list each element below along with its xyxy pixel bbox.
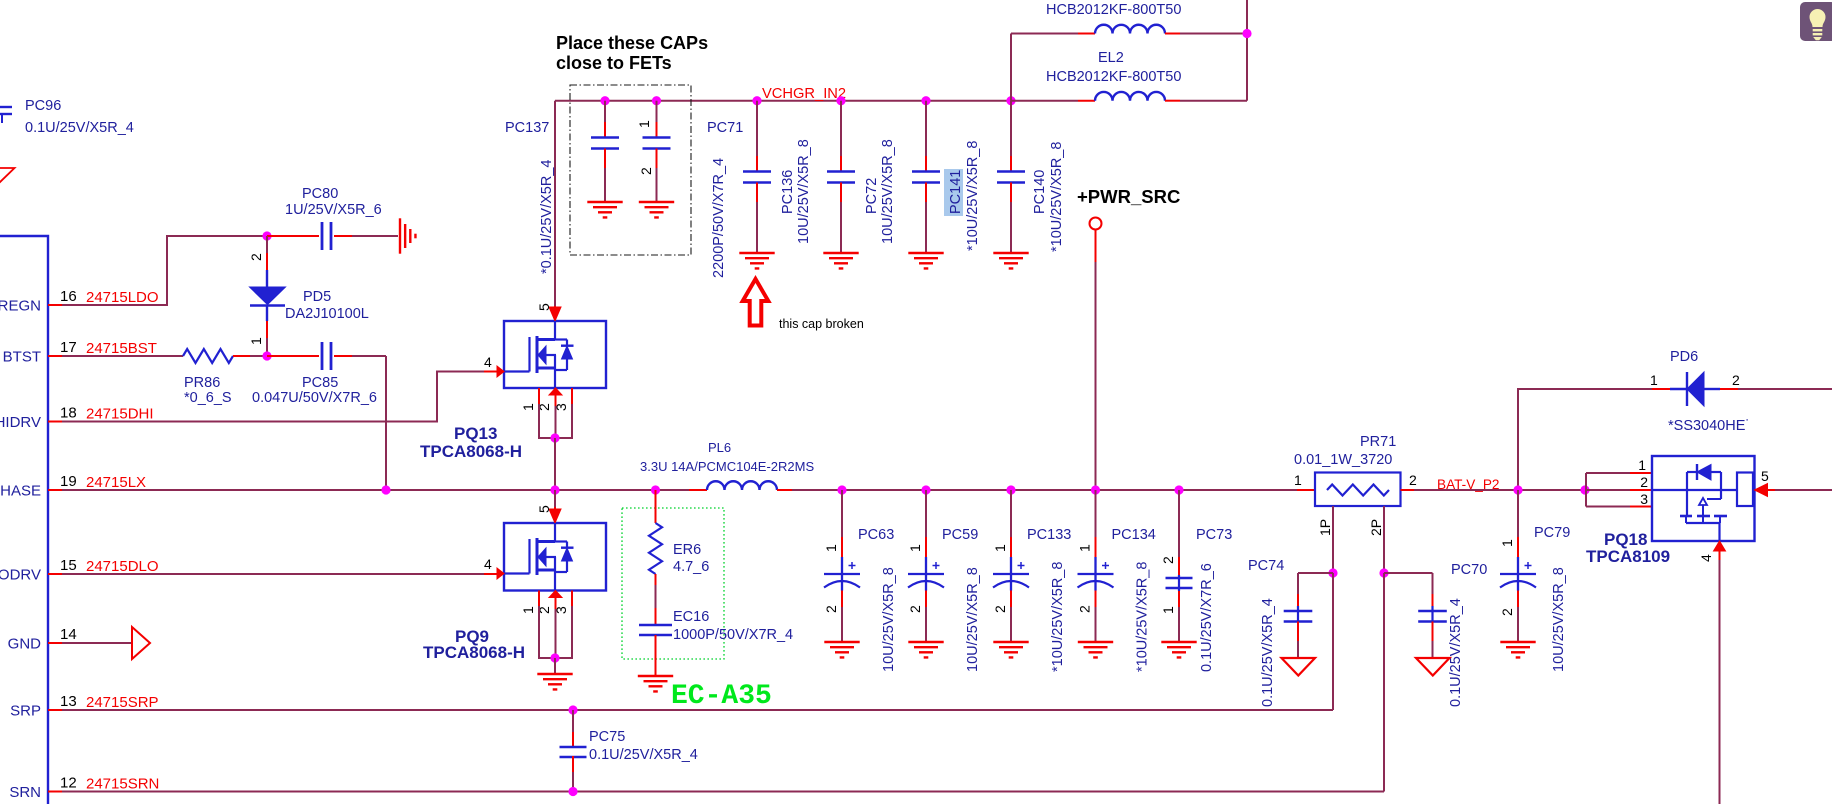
- svg-text:PC59: PC59: [942, 527, 978, 543]
- svg-text:1: 1: [1077, 544, 1093, 552]
- svg-text:1000P/50V/X7R_4: 1000P/50V/X7R_4: [673, 627, 793, 643]
- svg-text:PC70: PC70: [1451, 562, 1487, 578]
- svg-text:2: 2: [907, 605, 923, 613]
- svg-text:this cap broken: this cap broken: [779, 317, 864, 331]
- wire REGN to PC80: [62, 236, 267, 305]
- pin 13 SRP: [48, 709, 62, 711]
- svg-text:PR86: PR86: [184, 375, 220, 391]
- capacitor PC79: [1517, 490, 1519, 537]
- svg-text:12: 12: [60, 775, 77, 792]
- junction node PC80/PD5 top: [262, 231, 271, 240]
- svg-text:PD5: PD5: [303, 289, 331, 305]
- svg-text:PHASE: PHASE: [0, 483, 41, 500]
- wire PQ13 source bracket: [539, 404, 572, 438]
- pin 4 arrow PQ13: [497, 366, 504, 377]
- wire VCHGR down to PQ13 pin5: [554, 101, 556, 306]
- PQ13 mosfet internals: [554, 321, 556, 340]
- svg-text:PC73: PC73: [1196, 527, 1232, 543]
- capacitor PC133: [1006, 485, 1015, 494]
- svg-text:24715DLO: 24715DLO: [86, 558, 159, 575]
- svg-text:PC141: PC141: [948, 170, 964, 214]
- capacitor PC136: [836, 96, 845, 105]
- capacitor PC85: [267, 355, 319, 357]
- svg-text:*0.1U/25V/X5R_4: *0.1U/25V/X5R_4: [539, 160, 555, 274]
- resistor PR71: [1297, 489, 1315, 491]
- svg-text:HCB2012KF-800T50: HCB2012KF-800T50: [1046, 2, 1181, 18]
- power triangle PC74: [1282, 658, 1316, 676]
- svg-text:14: 14: [60, 626, 77, 643]
- svg-text:1: 1: [1294, 472, 1302, 488]
- svg-text:2P: 2P: [1368, 519, 1384, 536]
- junction node 1P: [1328, 568, 1337, 577]
- capacitor EC16: [655, 574, 657, 585]
- svg-text:15: 15: [60, 557, 77, 574]
- capacitor PC70: [1384, 572, 1433, 574]
- svg-text:*10U/25V/X5R_8: *10U/25V/X5R_8: [965, 141, 981, 251]
- svg-text:SRP: SRP: [10, 703, 41, 720]
- PR71 pin 2P lead: [1383, 506, 1385, 573]
- svg-text:1: 1: [248, 337, 264, 345]
- svg-text:2: 2: [1499, 608, 1515, 616]
- svg-text:*10U/25V/X5R_8: *10U/25V/X5R_8: [1135, 562, 1151, 672]
- pin 12 SRN: [48, 791, 62, 793]
- wire BAT-V_P2: [1414, 489, 1652, 491]
- svg-text:PC72: PC72: [864, 178, 880, 214]
- off-page connector GND pin14: [62, 642, 132, 644]
- wire HIDRV to PQ13 gate: [62, 372, 489, 422]
- svg-text:EC-A35: EC-A35: [671, 681, 772, 712]
- svg-text:PC85: PC85: [302, 375, 338, 391]
- svg-text:18: 18: [60, 405, 77, 422]
- pin 5 arrow PQ18: [1755, 484, 1768, 497]
- svg-text:0.1U/25V/X5R_4: 0.1U/25V/X5R_4: [1448, 598, 1464, 707]
- junction node LX-ER6: [651, 485, 660, 494]
- inductor EL2 winding A: [1078, 33, 1095, 35]
- svg-text:*10U/25V/X5R_8: *10U/25V/X5R_8: [1049, 142, 1065, 252]
- svg-text:2: 2: [823, 605, 839, 613]
- wire VCHGR_IN2 rail: [555, 100, 1011, 102]
- transistor PQ13 TPCA8068-H: [504, 321, 606, 388]
- wire PQ18 pin bracket: [1585, 473, 1587, 507]
- svg-text:0.1U/25V/X5R_4: 0.1U/25V/X5R_4: [25, 120, 134, 136]
- svg-text:0.1U/25V/X5R_4: 0.1U/25V/X5R_4: [589, 747, 698, 763]
- svg-text:PC75: PC75: [589, 729, 625, 745]
- junction node PQ13 source: [550, 433, 559, 442]
- PR71 pin 1P lead: [1332, 506, 1334, 573]
- svg-text:1: 1: [992, 544, 1008, 552]
- wire PD6 branch: [1518, 389, 1652, 490]
- off-page triangle (top-left, partial): [0, 168, 15, 184]
- capacitor PC80: [267, 235, 319, 237]
- dashed box around FET caps: [570, 85, 691, 255]
- svg-text:PC74: PC74: [1248, 558, 1284, 574]
- svg-text:1: 1: [520, 606, 536, 614]
- svg-text:10U/25V/X5R_8: 10U/25V/X5R_8: [965, 567, 981, 672]
- inductor EL2 winding B: [1011, 100, 1078, 102]
- diode PD6: [1652, 388, 1670, 390]
- svg-text:2200P/50V/X7R_4: 2200P/50V/X7R_4: [711, 158, 727, 278]
- transistor PQ9 TPCA8068-H: [504, 523, 606, 591]
- svg-text:2: 2: [1409, 472, 1417, 488]
- svg-text:REGN: REGN: [0, 298, 41, 315]
- power triangle PC70: [1416, 658, 1450, 676]
- junction node SRN-PC75: [568, 787, 577, 796]
- svg-text:10U/25V/X5R_8: 10U/25V/X5R_8: [1551, 567, 1567, 672]
- svg-text:5: 5: [536, 303, 552, 311]
- label PC141 (highlighted, floating): [944, 169, 963, 216]
- svg-text:*0_6_S: *0_6_S: [184, 390, 232, 406]
- capacitor PC71: [752, 96, 761, 105]
- svg-text:24715SRN: 24715SRN: [86, 776, 159, 793]
- svg-text:1: 1: [1638, 457, 1646, 473]
- junction node LX-PC85: [381, 485, 390, 494]
- pin 14 GND: [48, 642, 62, 644]
- pin 19 PHASE: [48, 489, 62, 491]
- pin 5 arrow PQ9: [554, 507, 556, 512]
- wire LODRV to PQ9: [62, 573, 489, 575]
- svg-text:0.01_1W_3720: 0.01_1W_3720: [1294, 452, 1392, 468]
- PQ13 bottom pins 1,2,3: [538, 388, 540, 404]
- svg-text:1: 1: [1160, 606, 1176, 614]
- svg-text:0.1U/25V/X7R_6: 0.1U/25V/X7R_6: [1199, 563, 1215, 672]
- resistor PR86: [62, 355, 183, 357]
- svg-text:PC136: PC136: [780, 170, 796, 214]
- svg-text:VCHGR_IN2: VCHGR_IN2: [762, 86, 846, 102]
- svg-text:10U/25V/X5R_8: 10U/25V/X5R_8: [796, 139, 812, 244]
- wire PQ18 pin5 out: [1775, 489, 1832, 491]
- capacitor PC140: [1006, 96, 1015, 105]
- wire PQ9 source to ground: [554, 658, 556, 674]
- svg-text:10U/25V/X5R_8: 10U/25V/X5R_8: [880, 139, 896, 244]
- svg-text:ER6: ER6: [673, 542, 701, 558]
- svg-text:PC71: PC71: [707, 120, 743, 136]
- svg-text:5: 5: [1761, 468, 1769, 484]
- junction node SRP-PC75: [568, 705, 577, 714]
- svg-text:2: 2: [992, 605, 1008, 613]
- capacitor PC72: [921, 96, 930, 105]
- svg-text:2: 2: [1160, 556, 1176, 564]
- transistor PQ18 TPCA8109: [1652, 456, 1755, 541]
- svg-text:10U/25V/X5R_8: 10U/25V/X5R_8: [881, 567, 897, 672]
- wire 24715LX rail: [62, 489, 689, 491]
- ground EC16: [638, 675, 673, 677]
- svg-text:TPCA8109: TPCA8109: [1586, 547, 1670, 566]
- svg-text:GND: GND: [8, 636, 42, 653]
- svg-text:19: 19: [60, 473, 77, 490]
- svg-text:24715LDO: 24715LDO: [86, 289, 159, 306]
- svg-text:2: 2: [1077, 605, 1093, 613]
- svg-text:PL6: PL6: [708, 440, 731, 455]
- wire EL2 right side up: [1246, 0, 1248, 101]
- junction node EL2 right: [1242, 29, 1251, 38]
- resistor ER6: [655, 490, 657, 523]
- svg-text:PC140: PC140: [1032, 170, 1048, 214]
- junction node PQ18 bracket: [1580, 485, 1589, 494]
- svg-text:PR71: PR71: [1360, 434, 1396, 450]
- junction node PD5/PC85: [262, 351, 271, 360]
- pin 18 HIDRV: [48, 421, 62, 423]
- svg-text:LODRV: LODRV: [0, 567, 41, 584]
- svg-text:HCB2012KF-800T50: HCB2012KF-800T50: [1046, 69, 1181, 85]
- svg-text:4: 4: [1698, 554, 1714, 562]
- svg-text:24715LX: 24715LX: [86, 474, 146, 491]
- svg-text:*SS3040HE˙: *SS3040HE˙: [1668, 418, 1750, 434]
- svg-text:2: 2: [1640, 474, 1648, 490]
- svg-text:1P: 1P: [1317, 519, 1333, 536]
- svg-text:4: 4: [484, 354, 492, 370]
- PQ18 mosfet internals: [1652, 489, 1737, 491]
- svg-text:2: 2: [638, 167, 654, 175]
- svg-text:close to FETs: close to FETs: [556, 53, 672, 73]
- wire PQ18 pin4 down: [1719, 560, 1721, 804]
- capacitor in dashed box #1: [600, 96, 609, 105]
- svg-text:EL2: EL2: [1098, 50, 1124, 66]
- svg-text:13: 13: [60, 693, 77, 710]
- svg-text:BTST: BTST: [3, 349, 41, 366]
- wire SRN rail: [62, 791, 1384, 793]
- svg-text:PQ13: PQ13: [454, 424, 497, 443]
- inductor PL6: [689, 489, 707, 491]
- capacitor PC74: [1298, 572, 1333, 574]
- wire PQ13 source to LX: [554, 438, 556, 490]
- svg-text:2: 2: [248, 253, 264, 261]
- wire SRP rail: [62, 709, 1333, 711]
- junction node 2P: [1379, 568, 1388, 577]
- wire upper EL2 branch: [1011, 33, 1078, 35]
- pin 4 arrow PQ18: [1714, 541, 1726, 551]
- junction node BAT-V/PD6: [1513, 485, 1522, 494]
- capacitor PC75: [572, 710, 574, 732]
- svg-text:24715BST: 24715BST: [86, 340, 157, 357]
- pin 17 BTST: [48, 355, 62, 357]
- capacitor PC59: [921, 485, 930, 494]
- svg-text:17: 17: [60, 339, 77, 356]
- capacitor in dashed box #2: [652, 96, 661, 105]
- svg-text:1: 1: [636, 120, 652, 128]
- svg-text:DA2J10100L: DA2J10100L: [285, 306, 369, 322]
- svg-text:3.3U 14A/PCMC104E-2R2MS: 3.3U 14A/PCMC104E-2R2MS: [640, 459, 814, 474]
- svg-text:1: 1: [520, 403, 536, 411]
- svg-text:PC137: PC137: [505, 120, 549, 136]
- svg-text:EC16: EC16: [673, 609, 709, 625]
- svg-text:TPCA8068-H: TPCA8068-H: [420, 442, 522, 461]
- svg-text:PC79: PC79: [1534, 525, 1570, 541]
- lightbulb icon (top-right): [1800, 2, 1832, 41]
- svg-text:TPCA8068-H: TPCA8068-H: [423, 643, 525, 662]
- junction node LX-PQ13: [550, 485, 559, 494]
- svg-text:24715DHI: 24715DHI: [86, 406, 154, 423]
- capacitor PC63: [837, 485, 846, 494]
- ground PQ9: [537, 673, 572, 675]
- pin 15 LODRV: [48, 573, 62, 575]
- svg-text:PC96: PC96: [25, 98, 61, 114]
- capacitor PC96 (partial, top-left): [0, 106, 12, 108]
- svg-text:PC134: PC134: [1112, 527, 1156, 543]
- svg-text:1U/25V/X5R_6: 1U/25V/X5R_6: [285, 202, 382, 218]
- svg-text:4: 4: [484, 556, 492, 572]
- wire PQ9 source bracket: [539, 606, 572, 658]
- red hollow arrow - this cap broken: [743, 279, 769, 326]
- svg-text:+PWR_SRC: +PWR_SRC: [1077, 186, 1180, 207]
- svg-text:PC133: PC133: [1027, 527, 1071, 543]
- svg-text:1: 1: [823, 544, 839, 552]
- capacitor PC73: [1174, 485, 1183, 494]
- pin 5 arrow PQ13: [549, 307, 561, 321]
- ground (right-facing) for PC80: [399, 218, 401, 253]
- svg-text:1: 1: [1499, 539, 1515, 547]
- svg-text:1: 1: [1650, 372, 1658, 388]
- IC U (left edge, charger controller): [0, 236, 48, 804]
- capacitor PC134: [1091, 485, 1100, 494]
- svg-text:PD6: PD6: [1670, 349, 1698, 365]
- green dotted box EC-A35 group: [622, 508, 724, 659]
- junction node PQ9 source: [550, 653, 559, 662]
- svg-text:1: 1: [907, 544, 923, 552]
- svg-text:0.1U/25V/X5R_4: 0.1U/25V/X5R_4: [1260, 598, 1276, 707]
- svg-text:24715SRP: 24715SRP: [86, 694, 159, 711]
- svg-text:16: 16: [60, 288, 77, 305]
- svg-text:2: 2: [1732, 372, 1740, 388]
- wire PC85 down to LX: [385, 356, 387, 490]
- svg-text:PC63: PC63: [858, 527, 894, 543]
- svg-text:3: 3: [1640, 491, 1648, 507]
- PQ9 bottom pins 1,2,3: [538, 591, 540, 607]
- svg-text:5: 5: [536, 505, 552, 513]
- svg-text:HIDRV: HIDRV: [0, 414, 41, 431]
- svg-text:0.047U/50V/X7R_6: 0.047U/50V/X7R_6: [252, 390, 377, 406]
- pin 4 arrow PQ9: [497, 568, 504, 579]
- svg-text:SRN: SRN: [9, 784, 41, 801]
- diode PD5: [266, 236, 268, 253]
- svg-text:PC80: PC80: [302, 186, 338, 202]
- PQ9 mosfet internals: [554, 523, 556, 542]
- svg-text:*10U/25V/X5R_8: *10U/25V/X5R_8: [1050, 562, 1066, 672]
- pin 16 REGN: [48, 304, 62, 306]
- svg-text:Place these CAPs: Place these CAPs: [556, 33, 708, 53]
- svg-text:4.7_6: 4.7_6: [673, 559, 709, 575]
